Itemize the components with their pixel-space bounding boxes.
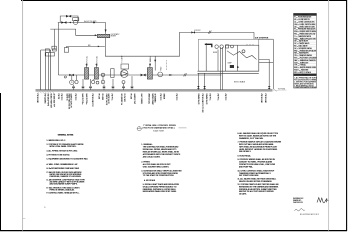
wire: feed header to mixer: [50, 29, 97, 35]
svg-text:1. WATER WELL NO. 3: 1. WATER WELL NO. 3: [47, 139, 66, 142]
table notes lines: [294, 76, 317, 89]
svg-text:DRAIN VALVE: DRAIN VALVE: [197, 94, 200, 106]
svg-text:2"Ø PVC: 2"Ø PVC: [175, 94, 177, 102]
svg-text:10 DAYS.: 10 DAYS.: [239, 193, 247, 196]
svg-text:SEE DETAIL 2.: SEE DETAIL 2.: [239, 150, 252, 153]
label blower: [213, 52, 217, 54]
svg-text:PI 0-60: PI 0-60: [129, 94, 131, 100]
instrument bubble PI-1b: [75, 75, 78, 84]
casing top line: [41, 49, 51, 51]
wire: drop to static mixer: [105, 23, 107, 35]
svg-text:1"Ø PE: 1"Ø PE: [57, 94, 59, 100]
svg-text:6"Ø SCH 80: 6"Ø SCH 80: [36, 94, 38, 103]
svg-text:DRAWINGS, 2-1/2" DIAL MIN.: DRAWINGS, 2-1/2" DIAL MIN.: [239, 137, 264, 140]
svg-text:( P&ID FLOW DIAGRAM AND DETAIL: ( P&ID FLOW DIAGRAM AND DETAIL ): [142, 127, 175, 130]
wire: drain drop 1: [197, 73, 199, 90]
svg-text:FS — FLOW SWITCH: FS — FLOW SWITCH: [294, 19, 309, 21]
svg-text:GAC VESSEL: GAC VESSEL: [140, 94, 143, 105]
bubble PI-2: [92, 79, 95, 84]
column divider: [301, 16, 303, 74]
inline gauge circle: [101, 73, 104, 76]
svg-text:P-1 20HP: P-1 20HP: [122, 56, 124, 63]
vent on F3: [149, 64, 150, 68]
skid base double line: [198, 71, 259, 73]
gauge circle: [231, 45, 234, 48]
arrow on drop: [154, 60, 156, 63]
tank T1: [111, 69, 114, 78]
vent on F2: [96, 64, 97, 68]
svg-text:LSL — LEVEL SWITCH LOW: LSL — LEVEL SWITCH LOW: [294, 26, 315, 28]
svg-text:LSH — LEVEL SWITCH HIGH: LSH — LEVEL SWITCH HIGH: [294, 24, 315, 26]
valve on bypass: [66, 15, 71, 18]
flow arrow: [105, 30, 107, 33]
svg-text:NOTES: NOTES: [302, 75, 307, 77]
svg-text:PRESSURE, CARBON STL HOUSING.: PRESSURE, CARBON STL HOUSING.: [50, 175, 82, 178]
svg-text:AT 120' BGS TYP: AT 120' BGS TYP: [53, 94, 56, 108]
svg-text:4. NO SCALE: 4. NO SCALE: [144, 179, 156, 182]
signature scribble: [317, 198, 327, 203]
svg-text:SAMPLE TAP: SAMPLE TAP: [133, 94, 136, 105]
svg-text:BAG FILT 10u: BAG FILT 10u: [85, 94, 88, 105]
svg-text:AIR STRIPPER: AIR STRIPPER: [255, 36, 269, 39]
svg-text:SAMPLE TAP & PI: SAMPLE TAP & PI: [70, 94, 73, 109]
wire: discharge line 1: [259, 59, 269, 89]
sheet outer border bottom: [0, 230, 347, 232]
label col: [36, 94, 38, 103]
wire: discharge line 2: [259, 61, 274, 63]
small dots row: [246, 44, 253, 45]
table frame: [294, 13, 317, 88]
svg-text:SCH — SCHEDULE: SCH — SCHEDULE: [294, 62, 308, 64]
dark inlet elbow: [205, 44, 212, 47]
tag pump: [122, 56, 124, 63]
tiny valve row: [72, 86, 133, 88]
wire: riser into stripper (double line): [220, 47, 222, 75]
svg-text:A. WELL PUMP: SUBMERSIBLE 5 H: A. WELL PUMP: SUBMERSIBLE 5 HP: [47, 163, 79, 166]
dotted chemical feed: [165, 60, 167, 70]
svg-text:FLOW SW: FLOW SW: [123, 94, 125, 102]
svg-text:1. GENERAL:: 1. GENERAL:: [141, 143, 153, 146]
wire: main chlorination pipe: [58, 22, 106, 24]
well assembly: [37, 46, 56, 93]
valve box: [226, 45, 229, 48]
svg-text:2. SEE SPEC FOR EQUIPMENT: 2. SEE SPEC FOR EQUIPMENT: [294, 81, 316, 83]
margin tick left: [23, 218, 26, 220]
sheet outer border right: [346, 0, 348, 231]
wire: main process header: [58, 74, 221, 76]
valve after pump: [141, 74, 146, 77]
skid top line extension: [259, 38, 274, 40]
valve on drop2: [203, 86, 206, 89]
wire: drop from header: [154, 56, 156, 70]
svg-text:DRAIN VALVE: DRAIN VALVE: [205, 94, 208, 106]
wire: drain drop 4: [222, 75, 224, 90]
svg-text:AND DISCHARGE SUMP PUMPS.: AND DISCHARGE SUMP PUMPS.: [50, 183, 79, 186]
static mixer M1: [97, 34, 109, 37]
svg-text:4"Øx2" RED TEE W/: 4"Øx2" RED TEE W/: [68, 94, 70, 110]
svg-text:AND LOCAL CODES.: AND LOCAL CODES.: [143, 155, 161, 158]
svg-text:DESIGNED BY:: DESIGNED BY:: [293, 198, 304, 200]
wire: drop from transfer pipe: [253, 32, 255, 39]
sump dark box: [230, 65, 234, 68]
stripper vessel box: [226, 45, 259, 71]
svg-text:2"Ø PVC: 2"Ø PVC: [159, 94, 161, 102]
svg-text:GENERAL NOTES:: GENERAL NOTES:: [58, 134, 74, 137]
valve on transfer pipe: [191, 31, 195, 33]
svg-text:6"Ø SCH 40: 6"Ø SCH 40: [264, 94, 266, 103]
vertical pipe labels below grade: [36, 94, 266, 114]
svg-text:CONDITIONS PRIOR TO WORK.: CONDITIONS PRIOR TO WORK.: [294, 87, 317, 89]
label static mixer: [111, 33, 120, 38]
sheet outer border top: [21, 0, 347, 2]
svg-text:BAG FILT 25u: BAG FILT 25u: [81, 94, 84, 105]
svg-text:VALVES UNLESS NOTED OTHERWISE.: VALVES UNLESS NOTED OTHERWISE.: [239, 180, 273, 183]
detail bubble: [137, 127, 141, 131]
valve V1 on main pipe: [61, 21, 66, 24]
casing hatch ticks: [37, 91, 54, 93]
well casing outer: [41, 50, 51, 90]
pump circle: [220, 45, 223, 48]
svg-text:5. EQUIPMENT ANCHORED TO CONC: 5. EQUIPMENT ANCHORED TO CONCRETE PAD.: [47, 157, 89, 160]
svg-text:2000 LB GAC: 2000 LB GAC: [148, 94, 151, 105]
svg-text:PVC — POLYVINYL CHLORIDE: PVC — POLYVINYL CHLORIDE: [294, 58, 316, 60]
svg-text:LC — LEVEL CONTROLLER: LC — LEVEL CONTROLLER: [294, 22, 315, 24]
label sump: [228, 63, 232, 65]
blower circle: [215, 45, 218, 48]
svg-text:3. ALL PIPING 2"Ø SCH 80 PVC: 3. ALL PIPING 2"Ø SCH 80 PVC UNO.: [47, 150, 79, 153]
check valve at mixer inlet: [95, 34, 97, 36]
wire: transfer pipe to stripper: [179, 31, 254, 33]
svg-text:W/ TUBING: W/ TUBING: [154, 94, 156, 104]
svg-text:PIPED IN SERIES, LEAD/LAG.: PIPED IN SERIES, LEAD/LAG.: [50, 188, 76, 191]
svg-text:SUBM. PUMP SET: SUBM. PUMP SET: [50, 94, 52, 108]
wire: drain drop 3: [219, 75, 221, 90]
wellhead base box: [45, 46, 56, 56]
svg-text:B. NaOCl METERING PUMP AND TA: B. NaOCl METERING PUMP AND TANK: [47, 167, 80, 170]
svg-text:NO. 41222-01 SHT 1 OF 2: NO. 41222-01 SHT 1 OF 2: [300, 214, 319, 216]
wire: bypass loop over metering pump: [60, 16, 78, 23]
svg-text:LEGEND: LEGEND: [302, 14, 309, 16]
title underline: [179, 127, 187, 129]
svg-text:8"Ø CASING: 8"Ø CASING: [44, 94, 47, 104]
svg-text:EXIST — EXISTING: EXIST — EXISTING: [294, 70, 309, 72]
instrument box on feed: [53, 49, 57, 51]
svg-text:2"Ø SCH 80 PVC: 2"Ø SCH 80 PVC: [91, 94, 93, 108]
svg-text:METER PUMP: METER PUMP: [151, 94, 153, 106]
svg-text:BLWR: BLWR: [213, 52, 217, 54]
flow meter circle: [158, 72, 163, 77]
tag bag filter 1: [86, 56, 89, 66]
inner margin line left: [22, 0, 24, 231]
valve on drop1: [197, 86, 200, 89]
well casing inner: [46, 53, 49, 90]
drain legs with valves above grade: [74, 76, 133, 90]
date scribble: [295, 209, 305, 211]
check valve on raw water line: [98, 46, 100, 48]
svg-text:2"Ø PVC: 2"Ø PVC: [216, 94, 218, 102]
bubble under pump: [122, 81, 125, 84]
svg-text:AND PUMP FAIL.: AND PUMP FAIL.: [239, 165, 254, 168]
grade line upper: [36, 89, 273, 91]
sheet outer border left: [0, 93, 2, 231]
inner margin line right: [328, 0, 330, 231]
svg-text:CHECKED BY:: CHECKED BY:: [293, 202, 304, 204]
wire: vent drop right: [272, 39, 274, 89]
svg-text:2"Ø PVC: 2"Ø PVC: [110, 94, 112, 102]
bubble PI-2b: [96, 81, 99, 84]
tag gac: [149, 57, 152, 66]
label to pond: [278, 89, 286, 91]
label NaOCl: [84, 21, 97, 23]
vent on F1: [86, 64, 87, 68]
label RW: [88, 45, 91, 47]
wire: well feed line B: [57, 23, 59, 76]
wire: drain drop 2: [204, 73, 206, 90]
svg-text:UNO. SOLVENT WELD JOINTS.: UNO. SOLVENT WELD JOINTS.: [143, 166, 170, 168]
svg-text:FM 2": FM 2": [160, 66, 162, 71]
svg-text:SOLENOID VA: SOLENOID VA: [120, 94, 123, 106]
bubble FI: [101, 75, 105, 84]
svg-text:4"Ø PVC: 4"Ø PVC: [224, 94, 226, 102]
svg-text:4"Ø DROP PIPE: 4"Ø DROP PIPE: [47, 94, 49, 107]
level bubble: [242, 50, 245, 53]
vessel internal wall: [237, 45, 239, 71]
svg-text:2"Ø PVC: 2"Ø PVC: [60, 94, 62, 102]
svg-text:TO THE START OF CONSTRUCTION.: TO THE START OF CONSTRUCTION.: [143, 174, 175, 177]
instrument bubble PI-1: [70, 75, 74, 85]
pipe break on header: [184, 73, 187, 76]
svg-text:F. CONTROL PANEL: NEMA 4X W/: F. CONTROL PANEL: NEMA 4X W/ PLC.: [47, 192, 80, 195]
svg-text:2"Ø SCH 80 PVC TO DR: 2"Ø SCH 80 PVC TO DR: [201, 94, 203, 114]
grade faint extension: [278, 89, 287, 91]
tag bag filter 2: [95, 56, 98, 66]
grade line lower: [36, 91, 273, 93]
pump motor box: [121, 64, 129, 69]
junction dot: [70, 22, 71, 23]
grade break squiggle: [274, 90, 278, 91]
bag filter F2: [94, 68, 98, 80]
metering pump P1: [73, 18, 79, 25]
svg-text:SUMP: SUMP: [228, 63, 232, 65]
flow arrow on header: [169, 74, 172, 76]
table header bar: [294, 13, 317, 15]
svg-text:GATE VALVE: GATE VALVE: [107, 94, 110, 105]
wire: well feed line A: [53, 29, 55, 49]
skid enclosure: [199, 39, 259, 71]
label exist grade: [234, 81, 245, 84]
wellhead upper box: [45, 49, 49, 52]
packing zigzag: [227, 51, 257, 60]
svg-text:4. FITTINGS TO BE SCH 80.: 4. FITTINGS TO BE SCH 80.: [47, 155, 71, 157]
svg-text:MIXER: MIXER: [111, 36, 117, 38]
pipe break symbol: [208, 31, 211, 34]
svg-text:8. ELECTRICAL:: 8. ELECTRICAL:: [238, 154, 252, 157]
sump arrow: [237, 66, 239, 68]
svg-text:PSL — PRESS SWITCH LOW: PSL — PRESS SWITCH LOW: [294, 34, 316, 36]
svg-text:1"Ø PVC: 1"Ø PVC: [209, 94, 211, 102]
equipment tags above train: [86, 56, 163, 71]
label 2in pvc: [194, 30, 201, 32]
centrifugal pump P-1: [120, 70, 128, 78]
bag filter F1: [85, 68, 89, 80]
svg-text:PI 0-60: PI 0-60: [97, 94, 99, 100]
svg-text:REGULATING CABLE PER SPEC 1508: REGULATING CABLE PER SPEC 15080.: [143, 190, 177, 193]
svg-text:2"Ø PVC: 2"Ø PVC: [74, 94, 76, 102]
table notes header bar: [294, 74, 317, 76]
valve on discharge 1: [268, 86, 271, 89]
small gauge box RW: [64, 48, 68, 53]
wire: internal drop: [206, 43, 218, 71]
svg-text:4"Ø SCH 40: 4"Ø SCH 40: [260, 94, 262, 103]
svg-text:FI 0-100: FI 0-100: [101, 94, 103, 100]
gauge under line: [64, 76, 66, 78]
svg-text:PSH — PRESS SWITCH HIGH: PSH — PRESS SWITCH HIGH: [294, 31, 316, 33]
svg-text:UNION: UNION: [162, 94, 164, 100]
isolation valve: [69, 74, 74, 77]
table rows: [294, 16, 317, 74]
wire: raw water line: [67, 46, 105, 47]
stamp text block: [293, 198, 304, 204]
svg-text:WITH LOCAL PANEL CONTROL.: WITH LOCAL PANEL CONTROL.: [50, 145, 77, 148]
svg-text:4"Ø PVC: 4"Ø PVC: [194, 30, 201, 32]
wire: mixer outlet header: [105, 32, 179, 56]
svg-text:SET POINTS PER MFR.: SET POINTS PER MFR.: [239, 175, 259, 177]
tag flow meter: [160, 66, 162, 71]
carbon filter F3: [147, 68, 152, 80]
svg-text:PVC UNLESS NOTED OTHERW.: PVC UNLESS NOTED OTHERW.: [294, 79, 317, 81]
margin tick right: [325, 200, 328, 202]
label air stripper (dark): [255, 36, 269, 39]
svg-text:NaOCl 150 GPD: NaOCl 150 GPD: [84, 21, 97, 23]
junction dot: [93, 22, 95, 24]
